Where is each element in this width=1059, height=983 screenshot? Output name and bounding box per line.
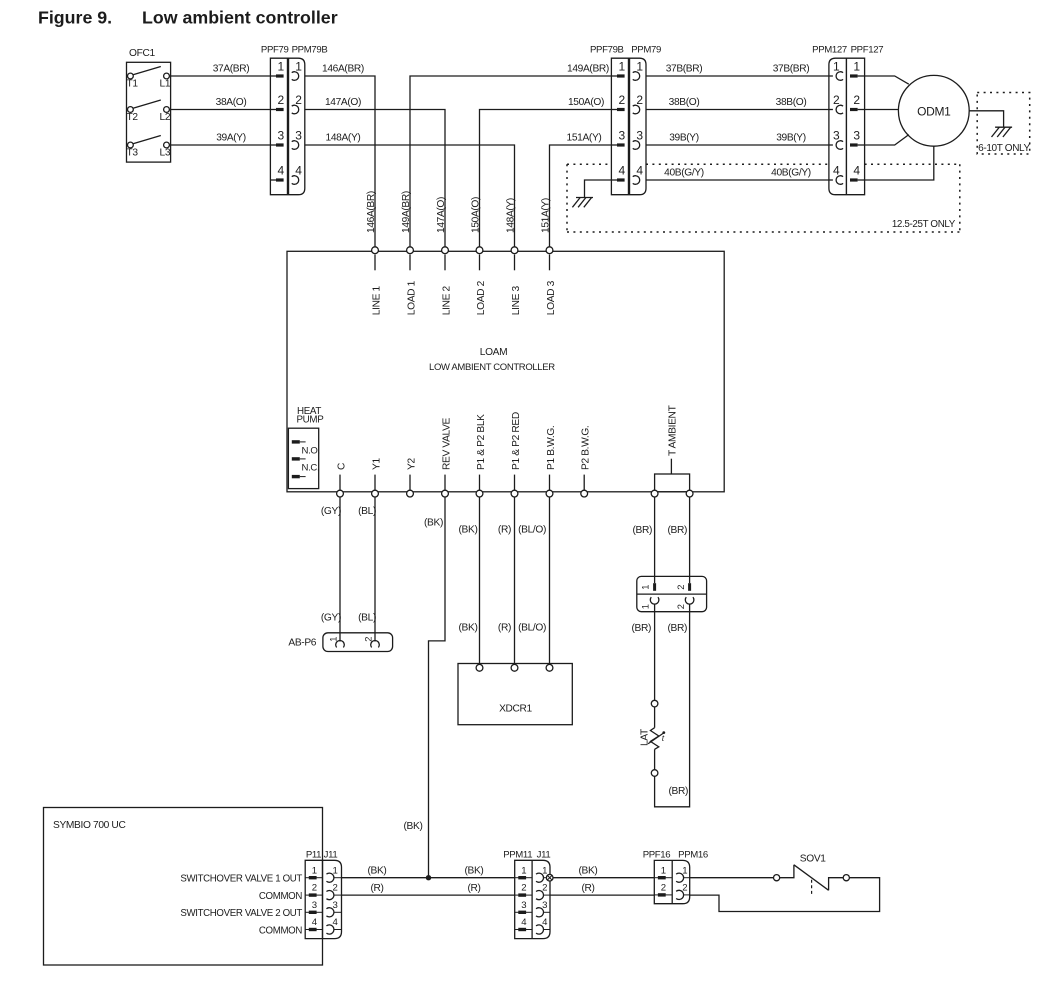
svg-text:12.5-25T ONLY: 12.5-25T ONLY [892,219,956,230]
svg-text:PPF79: PPF79 [261,45,289,56]
svg-text:SWITCHOVER VALVE 2 OUT: SWITCHOVER VALVE 2 OUT [180,908,302,919]
connector PPF79 PPM79B [261,45,327,195]
svg-text:SYMBIO 700 UC: SYMBIO 700 UC [53,820,125,831]
svg-text:(BR): (BR) [668,786,688,797]
svg-text:XDCR1: XDCR1 [499,704,532,715]
svg-text:3: 3 [521,900,526,911]
svg-text:LOAM: LOAM [480,347,507,358]
wire common (R) [342,883,515,895]
wire PPF127-2 to ODM1 [865,109,899,111]
svg-text:2: 2 [278,93,285,107]
svg-text:2: 2 [521,883,526,894]
svg-text:1: 1 [682,865,687,876]
svg-text:P2 B.W.G.: P2 B.W.G. [581,426,592,470]
svg-text:151A(Y): 151A(Y) [541,198,552,233]
wire P1 &amp; P2 BLK (BK) to XDCR1 [459,497,480,665]
LOAM terminal LINE 2 [441,247,452,315]
connector AB-P6 [288,633,392,652]
connector P11 J11 [305,850,341,939]
svg-text:LOAD 2: LOAD 2 [476,280,487,315]
wire T AMBIENT 1 (BR) [631,497,654,634]
svg-text:(BR): (BR) [632,525,652,536]
connector PPF16 PPM16 [643,850,708,904]
svg-text:1: 1 [619,59,626,73]
svg-text:1: 1 [278,59,285,73]
svg-text:(BK): (BK) [424,518,443,529]
svg-text:39B(Y): 39B(Y) [669,132,699,143]
wire LAT return (BR) [655,604,690,807]
svg-text:LINE 1: LINE 1 [371,285,382,315]
svg-text:2: 2 [363,637,373,642]
svg-text:1: 1 [295,59,302,73]
wire P1 &amp; P2 RED (R) to XDCR1 [498,497,515,665]
splice [546,874,553,881]
svg-text:(GY): (GY) [321,613,341,624]
wire 38B(O) [646,97,829,110]
svg-text:37A(BR): 37A(BR) [213,63,250,74]
svg-text:2: 2 [295,93,302,107]
svg-text:T AMBIENT: T AMBIENT [668,405,679,456]
svg-text:SWITCHOVER VALVE 1 OUT: SWITCHOVER VALVE 1 OUT [180,874,302,885]
svg-text:1: 1 [636,59,643,73]
svg-text:(BL): (BL) [358,613,376,624]
wire 149A(BR) [401,63,611,248]
svg-text:PPF79B: PPF79B [590,45,624,56]
svg-text:2: 2 [853,93,860,107]
svg-text:147A(O): 147A(O) [436,197,447,233]
svg-text:1: 1 [853,59,860,73]
svg-text:149A(BR): 149A(BR) [567,63,609,74]
LOAM terminal Y1 [371,458,382,497]
wire REV VALVE (BK) to SOV circuit [404,497,445,878]
svg-text:2: 2 [676,604,686,609]
wire Y1 (BL) to AB-P6 pin 2 [358,497,376,642]
LOAM terminal LOAD 2 [476,247,487,315]
junction [426,875,431,880]
svg-text:2: 2 [833,93,840,107]
wire 37B(BR) [646,63,829,76]
controller SYMBIO 700 UC [44,808,323,966]
dashed box 12.5-25T ONLY [567,164,960,232]
svg-text:(BK): (BK) [579,866,598,877]
svg-text:COMMON: COMMON [259,891,302,902]
LOAM terminal REV VALVE [441,417,452,497]
svg-text:1: 1 [641,604,651,609]
inline connector LAT plug [637,576,707,611]
wire C (GY) to AB-P6 pin 1 [321,497,341,642]
LOAM terminal T AMBIENT [651,405,693,497]
wire 151A(Y) [541,132,612,248]
svg-text:AB-P6: AB-P6 [288,638,316,649]
wire ODM1 to ground [969,111,1003,127]
svg-text:Y2: Y2 [406,458,417,470]
svg-text:4: 4 [295,163,302,177]
svg-text:2: 2 [542,883,547,894]
connector PPM11 J11 [503,850,550,939]
svg-text:SOV1: SOV1 [800,854,826,865]
svg-text:2: 2 [619,93,626,107]
svg-text:(BL): (BL) [358,506,376,517]
HEAT PUMP relay contact block [288,406,324,489]
svg-text:Low ambient controller: Low ambient controller [142,8,338,28]
svg-text:(R): (R) [498,525,511,536]
svg-text:N.C.: N.C. [302,463,320,474]
svg-text:J11: J11 [537,850,551,861]
wire 147A(O) [305,97,447,248]
svg-text:150A(O): 150A(O) [568,97,604,108]
wire PPF127-1 to ODM1 [865,76,909,84]
svg-text:Y1: Y1 [371,458,382,470]
svg-text:N.O.: N.O. [302,446,320,457]
svg-text:(R): (R) [581,883,594,894]
wire 150A(O) [471,97,612,248]
svg-text:3: 3 [312,900,317,911]
svg-text:REV VALVE: REV VALVE [441,417,452,470]
svg-text:148A(Y): 148A(Y) [506,198,517,233]
svg-text:147A(O): 147A(O) [325,97,361,108]
svg-text:J11: J11 [324,850,338,861]
svg-text:LINE 3: LINE 3 [511,285,522,315]
svg-text:PPM79: PPM79 [631,45,661,56]
svg-text:39B(Y): 39B(Y) [776,132,806,143]
svg-text:3: 3 [333,900,338,911]
svg-text:T1: T1 [127,79,139,90]
svg-text:38A(O): 38A(O) [216,97,247,108]
svg-text:149A(BR): 149A(BR) [401,191,412,233]
wire 39B(Y) [646,132,829,145]
wire (R) PPM11 to PPF16 [550,883,654,895]
svg-text:COMMON: COMMON [259,925,302,936]
svg-text:146A(BR): 146A(BR) [366,191,377,233]
svg-text:2: 2 [682,883,687,894]
disconnect switch OFC1 [127,48,171,162]
svg-text:4: 4 [636,163,643,177]
svg-text:39A(Y): 39A(Y) [216,132,246,143]
svg-text:PPM16: PPM16 [678,850,708,861]
svg-text:148A(Y): 148A(Y) [326,132,361,143]
svg-text:2: 2 [333,883,338,894]
svg-text:(GY): (GY) [321,506,341,517]
svg-text:3: 3 [278,128,285,142]
svg-text:37B(BR): 37B(BR) [773,63,810,74]
svg-text:(BR): (BR) [667,623,687,634]
svg-text:(R): (R) [467,883,480,894]
wire 38A(O) [169,97,270,110]
svg-text:1: 1 [641,585,651,590]
svg-text:4: 4 [619,163,626,177]
wire LAT pin1 (BR) [654,604,656,701]
dashed box 6-10T ONLY [977,93,1030,155]
svg-text:P11: P11 [306,850,321,861]
connector PPM127 PPF127 [812,45,883,195]
svg-text:3: 3 [833,128,840,142]
svg-text:146A(BR): 146A(BR) [322,63,364,74]
svg-text:4: 4 [278,163,285,177]
svg-text:38B(O): 38B(O) [776,97,807,108]
svg-text:1: 1 [661,865,666,876]
svg-text:(BK): (BK) [465,866,484,877]
wire T AMBIENT 2 (BR) [667,497,689,634]
svg-text:P1 & P2 BLK: P1 & P2 BLK [476,414,487,470]
svg-text:40B(G/Y): 40B(G/Y) [771,167,811,178]
svg-text:Figure 9.: Figure 9. [38,8,112,28]
LOAM terminal LINE 3 [511,247,522,315]
svg-text:40B(G/Y): 40B(G/Y) [664,167,704,178]
svg-text:1: 1 [542,865,547,876]
motor ODM1 [898,75,969,146]
LOAM terminal C [336,463,347,497]
svg-text:4: 4 [833,163,840,177]
svg-text:ODM1: ODM1 [917,104,951,118]
LOAM terminal LINE 1 [371,247,382,315]
ground (12.5-25T) [572,180,611,207]
LOAM low ambient controller U1 [287,251,724,491]
svg-text:2: 2 [676,585,686,590]
svg-text:1: 1 [333,865,338,876]
svg-text:PPM79B: PPM79B [292,45,328,56]
wire 146A(BR) [305,63,377,248]
wire SOV1 return [690,878,880,912]
svg-text:LOW AMBIENT CONTROLLER: LOW AMBIENT CONTROLLER [429,362,555,373]
svg-text:LINE 2: LINE 2 [441,285,452,315]
svg-text:PPM127: PPM127 [812,45,847,56]
svg-text:(BK): (BK) [404,821,423,832]
svg-text:(R): (R) [370,883,383,894]
svg-text:PPF16: PPF16 [643,850,671,861]
svg-text:2: 2 [312,883,317,894]
svg-text:P1 B.W.G.: P1 B.W.G. [546,426,557,470]
svg-text:38B(O): 38B(O) [669,97,700,108]
wire P1 B.W.G. (BL/O) to XDCR1 [518,497,549,665]
svg-text:3: 3 [295,128,302,142]
svg-text:PPM11: PPM11 [503,850,532,861]
svg-text:P1 & P2 RED: P1 & P2 RED [511,412,522,470]
svg-text:C: C [336,463,347,470]
LOAM terminal P1 B.W.G. [546,426,557,497]
LOAM terminal LOAD 1 [406,247,417,315]
thermistor LAT [640,700,666,776]
figure title [38,8,338,28]
wire switchover valve 1 (BK) [342,866,515,878]
ground (6-10T) [992,127,1013,137]
svg-text:150A(O): 150A(O) [471,197,482,233]
svg-text:OFC1: OFC1 [129,48,155,59]
transducer XDCR1 [458,664,572,725]
svg-text:PUMP: PUMP [297,414,325,425]
svg-text:2: 2 [661,883,666,894]
svg-text:(BR): (BR) [631,623,651,634]
connector PPF79B PPM79 [590,45,661,195]
wire (BK) PPM11 to PPF16 [553,866,654,878]
svg-text:37B(BR): 37B(BR) [666,63,703,74]
LOAM terminal P1 & P2 RED [511,412,522,497]
svg-text:(BR): (BR) [667,525,687,536]
svg-text:1: 1 [328,637,338,642]
wire PPF127-4 to ODM1 [865,146,934,180]
svg-text:151A(Y): 151A(Y) [567,132,602,143]
svg-text:6-10T ONLY: 6-10T ONLY [978,143,1030,154]
svg-text:(BK): (BK) [459,623,478,634]
svg-text:3: 3 [853,128,860,142]
LOAM terminal LOAD 3 [546,247,557,315]
svg-text:(R): (R) [498,623,511,634]
svg-text:LOAD 1: LOAD 1 [406,280,417,315]
LOAM terminal Y2 [406,458,417,497]
svg-text:3: 3 [542,900,547,911]
wire 148A(Y) [305,132,517,248]
svg-text:PPF127: PPF127 [851,45,884,56]
svg-text:1: 1 [312,865,317,876]
wire 40B(G/Y) [646,167,829,180]
svg-text:L1: L1 [160,79,171,90]
svg-text:LOAD 3: LOAD 3 [546,280,557,315]
svg-text:(BK): (BK) [368,866,387,877]
svg-text:L3: L3 [160,148,171,159]
svg-text:T2: T2 [127,112,139,123]
wire 39A(Y) [169,132,270,145]
wire PPF127-3 to ODM1 [865,135,909,145]
svg-text:LAT: LAT [640,729,651,746]
svg-text:1: 1 [521,865,526,876]
LOAM terminal P2 B.W.G. [581,426,592,497]
LOAM terminal P1 & P2 BLK [476,414,487,497]
svg-text:(BL/O): (BL/O) [518,623,546,634]
svg-text:4: 4 [853,163,860,177]
solenoid valve switch SOV1 [774,854,850,896]
wire 37A(BR) [169,63,270,76]
svg-text:(BK): (BK) [459,525,478,536]
svg-text:3: 3 [619,128,626,142]
svg-text:2: 2 [636,93,643,107]
svg-text:L2: L2 [160,112,171,123]
svg-text:3: 3 [636,128,643,142]
svg-text:1: 1 [833,59,840,73]
svg-text:T3: T3 [127,148,139,159]
wire PPM16-1 to SOV1 [690,877,774,879]
svg-text:(BL/O): (BL/O) [518,525,546,536]
